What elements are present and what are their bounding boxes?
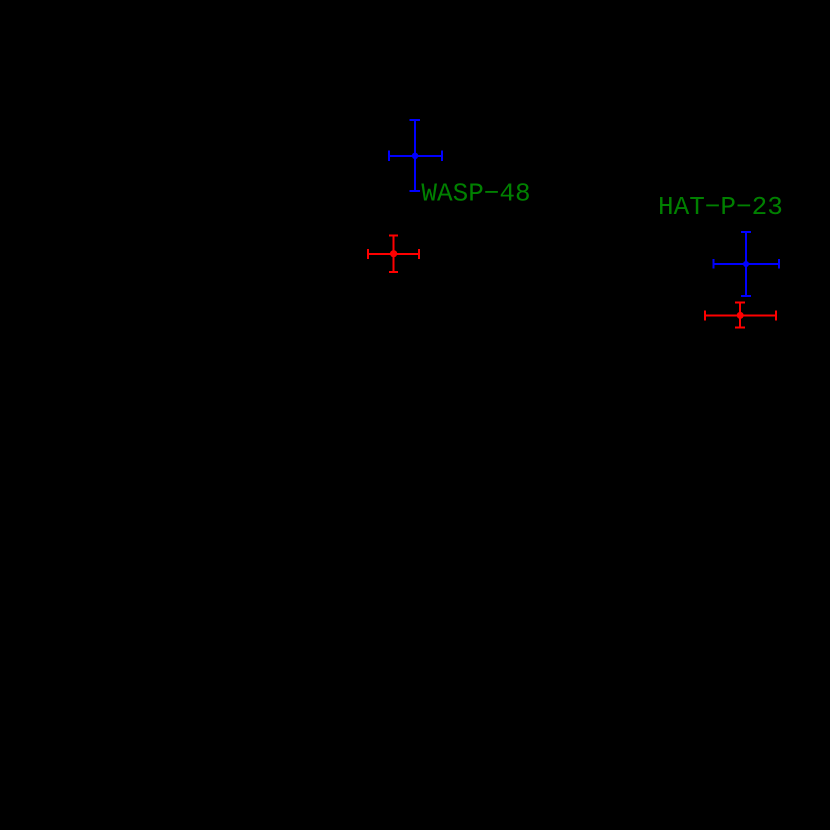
svg-text:HAT−P−23: HAT−P−23: [658, 192, 783, 222]
wire: y error bar HAT-P-23 red: [739, 303, 741, 328]
wire: y error bar bottom cap: [741, 295, 751, 297]
wire: x error bar HAT-P-23 red: [705, 315, 776, 317]
wire: x error bar right cap: [778, 259, 780, 269]
wire: y error bar bottom cap: [389, 271, 398, 273]
data point HAT-P-23 red (marker + error bars): [705, 303, 776, 328]
wire: x error bar right cap: [418, 249, 420, 259]
wire: y error bar bottom cap: [735, 327, 745, 329]
svg-text:WASP−48: WASP−48: [421, 178, 530, 208]
node: HAT-P-23 red marker: [737, 312, 744, 319]
wire: y error bar top cap: [410, 119, 420, 121]
wire: x error bar right cap: [441, 151, 443, 161]
wire: y error bar top cap: [735, 302, 745, 304]
wire: x error bar left cap: [388, 151, 390, 161]
wire: y error bar WASP-48 blue: [414, 120, 416, 191]
wire: y error bar HAT-P-23 blue: [745, 232, 747, 296]
wire: x error bar right cap: [775, 311, 777, 321]
wire: x error bar HAT-P-23 blue: [713, 263, 779, 265]
wire: x error bar left cap: [704, 311, 706, 321]
wire: x error bar left cap: [367, 249, 369, 259]
wire: x error bar WASP-48 blue: [389, 155, 442, 157]
node: WASP-48 blue marker: [412, 153, 418, 159]
node: HAT-P-23 blue marker: [743, 261, 749, 267]
data point WASP-48 blue (marker + error bars): [389, 120, 442, 191]
wire: x error bar left cap: [712, 259, 714, 269]
data point WASP-48 red (marker + error bars): [368, 235, 419, 271]
wire: y error bar top cap: [389, 234, 398, 236]
data point HAT-P-23 blue (marker + error bars): [713, 232, 779, 296]
node: WASP-48 red marker: [390, 250, 397, 257]
wire: x error bar WASP-48 red: [368, 253, 419, 255]
wire: y error bar top cap: [741, 231, 751, 233]
wire: y error bar WASP-48 red: [393, 235, 395, 271]
wire: y error bar bottom cap: [410, 190, 420, 192]
